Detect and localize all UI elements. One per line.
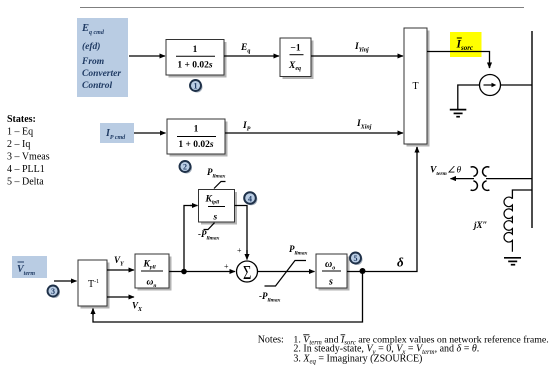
svg-text:jX″: jX″ [472,220,488,230]
wire bus to reactance branch [512,190,532,199]
notes text [258,334,549,365]
svg-text:VY: VY [114,255,125,268]
svg-text:Pllmax: Pllmax [207,167,226,180]
state circle 3 [48,286,61,299]
ground (current source) [450,110,467,117]
wire IYinj to T [311,55,403,57]
wire current source to bus [501,84,533,86]
wire Eq_cmd to lag block [129,55,165,57]
wire Vterm to T-inverse [54,280,77,282]
current source circle [480,75,501,96]
node junction after Kpll [181,269,187,275]
svg-text:+: + [224,262,229,271]
svg-text:Pllmax: Pllmax [289,244,308,257]
wire Eq to -1/Xeq [224,55,279,57]
svg-text:3. Xeq = Imaginary (ZSOURCE): 3. Xeq = Imaginary (ZSOURCE) [293,353,422,365]
svg-text:-Pllmax: -Pllmax [198,229,220,242]
yellow highlight Isorc [450,32,482,57]
summer [237,260,258,283]
svg-text:Notes:: Notes: [258,334,284,345]
wire current source to ground [458,85,480,110]
svg-text:IYinj: IYinj [354,42,369,54]
block -1/Xeq [280,38,314,79]
top rule [80,7,524,9]
svg-text:1 – Eq: 1 – Eq [7,127,33,138]
svg-text:δ: δ [397,255,404,270]
wire IXinj to T [225,132,403,134]
svg-text:1: 1 [194,124,199,134]
svg-text:2 – Iq: 2 – Iq [7,139,30,150]
svg-text:Eq: Eq [240,43,250,55]
wire delta feedback to T-inverse [93,272,363,323]
block w0/s [316,254,350,291]
svg-text:4: 4 [248,194,252,203]
svg-text:T: T [412,81,418,92]
state circle 2 [180,161,193,174]
input box Vterm [12,256,47,278]
svg-text:2: 2 [183,163,187,172]
svg-text:VX: VX [132,301,143,314]
block T-inverse [78,260,110,309]
svg-text:3 – Vmeas: 3 – Vmeas [7,152,50,163]
saturation symbol [265,261,307,287]
limit mark bottom (-Pllmax) [204,223,215,230]
wire transformer to bus [486,178,532,180]
svg-text:-Pllmax: -Pllmax [259,291,281,304]
svg-text:1 + 0.02s: 1 + 0.02s [177,60,213,70]
svg-text:Control: Control [82,81,112,91]
svg-text:s: s [328,277,333,288]
wire junction up to Kipll [184,206,192,272]
svg-text:+: + [237,246,242,255]
wire Vterm arrow [451,178,475,180]
bus bar [531,31,533,228]
wire T to current source [427,52,490,69]
wire Kpll to summer [169,271,235,273]
svg-text:1: 1 [193,45,198,55]
wire summer to w0/s block [258,271,315,273]
block T [404,28,430,147]
state circle 1 [190,80,203,93]
svg-text:IXinj: IXinj [356,119,372,131]
block lag 1/(1+0.02s) [166,40,227,78]
svg-text:Vterm∠θ: Vterm∠θ [430,164,462,177]
svg-text:Converter: Converter [82,69,121,79]
inductor jX'' [504,197,512,252]
block Kpll/wn [135,254,172,291]
wire VX [107,296,134,298]
limit mark top (Pllmax) [214,182,226,189]
svg-text:1 + 0.02s: 1 + 0.02s [178,140,214,150]
input box IP_cmd [100,123,134,143]
overbar V (note 1) [303,334,309,336]
svg-text:IP: IP [242,121,251,133]
svg-text:5 – Delta: 5 – Delta [7,177,44,188]
wire Kipll to summer [235,206,248,255]
block Kipll/s [199,190,238,225]
svg-text:1: 1 [194,82,198,91]
wire VY [107,269,134,271]
svg-text:3: 3 [51,287,55,296]
overbar I (note 1) [341,334,346,336]
ground (reactance) [504,258,521,265]
states list [7,114,50,188]
state circle 5 [350,253,363,266]
svg-text:s: s [213,213,218,223]
svg-text:5: 5 [354,254,358,263]
svg-text:States:: States: [7,114,36,125]
wire delta to T [347,147,417,272]
svg-text:−1: −1 [290,44,300,54]
svg-text:(efd): (efd) [82,41,100,52]
node delta junction [360,268,366,274]
wire IP_cmd to lag block [134,132,166,134]
svg-text:Σ: Σ [243,260,251,283]
input box Eq_cmd (From Converter Control) [77,18,128,97]
svg-text:From: From [81,57,104,67]
state circle 4 [244,192,257,205]
transformer [471,167,490,191]
svg-text:4 – PLL1: 4 – PLL1 [7,164,45,175]
block lag 1/(1+0.02s) row2 [167,119,228,157]
